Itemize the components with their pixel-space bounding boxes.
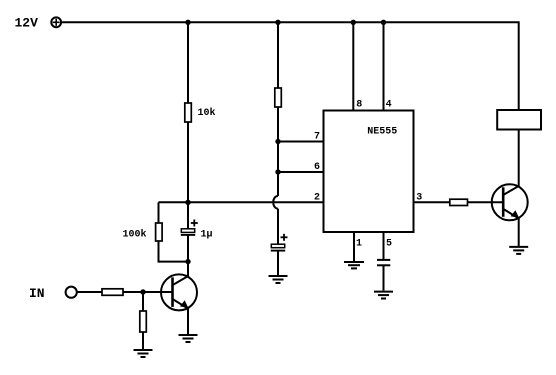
svg-text:2: 2 xyxy=(314,193,320,204)
node junction x=143 y=292.5 xyxy=(140,289,145,294)
ground under C3 xyxy=(374,292,393,299)
wire C2 bottom to ground xyxy=(277,251,279,276)
wire horizontal net y=202 to pin 2 xyxy=(159,201,324,203)
svg-text:5: 5 xyxy=(386,239,392,250)
wire down to R3 xyxy=(158,202,160,223)
wire Q2 emitter to ground xyxy=(518,218,520,247)
node junction top rail at x=187.5 xyxy=(185,20,190,25)
ground under C2 xyxy=(269,276,288,283)
wire hop over pin2 net xyxy=(273,196,278,209)
wire Q1 emitter to ground xyxy=(187,308,189,335)
resistor R4 xyxy=(102,289,123,296)
svg-text:12V: 12V xyxy=(15,16,39,31)
svg-text:4: 4 xyxy=(386,99,392,110)
resistor R5 xyxy=(140,311,147,332)
svg-text:1µ: 1µ xyxy=(201,229,213,240)
svg-text:6: 6 xyxy=(314,162,320,173)
wire R4 to Q1 base xyxy=(123,291,173,293)
svg-text:10k: 10k xyxy=(198,107,216,119)
wire R3 bottom to node xyxy=(159,241,189,262)
wire C3 to ground xyxy=(383,265,385,290)
wire top rail to R2 xyxy=(277,22,279,88)
wire R6 to Q2 base xyxy=(468,201,504,203)
resistor R1 10k xyxy=(185,103,192,122)
resistor R6 xyxy=(450,199,468,205)
transistor Q1 xyxy=(161,274,197,310)
wire pin 1 to ground xyxy=(353,232,355,261)
svg-text:IN: IN xyxy=(29,286,45,301)
terminal IN xyxy=(66,287,77,298)
ground under pin 1 xyxy=(344,262,364,268)
svg-text:8: 8 xyxy=(356,99,362,110)
resistor R2 xyxy=(275,88,282,107)
capacitor C2 electrolytic xyxy=(271,234,288,251)
op-amp/timer U1 NE555 box xyxy=(324,111,414,233)
wire pin 4 xyxy=(383,22,385,110)
relay coil K1 xyxy=(497,110,541,130)
node junction pin7 xyxy=(275,139,280,144)
svg-text:NE555: NE555 xyxy=(367,127,397,138)
wire top rail from 12V terminal to right turn down to relay xyxy=(61,22,518,110)
wire to pin 7 xyxy=(278,141,324,143)
ground under Q1 xyxy=(179,335,198,342)
power terminal 12V xyxy=(51,17,61,27)
svg-text:1: 1 xyxy=(356,239,362,250)
ground under R5 xyxy=(134,350,153,357)
node junction x=187.5 y=202 xyxy=(185,200,190,205)
capacitor C1 1u electrolytic xyxy=(181,220,198,235)
wire to pin 6 xyxy=(278,171,324,173)
svg-text:100k: 100k xyxy=(123,228,147,240)
wire node y202 down to C1 xyxy=(187,202,189,229)
wire R5 to ground xyxy=(142,332,144,350)
wire hop bottom to C2 xyxy=(277,209,279,245)
svg-text:7: 7 xyxy=(314,132,320,143)
wire pin 5 to C3 xyxy=(383,232,385,259)
wire C1 bottom to node xyxy=(187,235,189,262)
wire IN terminal to R4 xyxy=(77,291,102,293)
wire node down to R5 xyxy=(142,292,144,311)
wire R1 bottom to node xyxy=(187,122,189,202)
wire top rail to R1 xyxy=(187,22,189,103)
wire relay to Q2 collector xyxy=(518,130,520,187)
node junction top rail pin4 xyxy=(381,20,386,25)
node junction top rail pin8 xyxy=(351,20,356,25)
wire pin 3 to R6 xyxy=(414,201,450,203)
wire R2 bottom through pin7/pin6 nodes xyxy=(277,107,279,196)
ground under Q2 xyxy=(509,247,528,254)
capacitor C3 xyxy=(377,260,390,265)
node junction x=187.5 y=261.5 xyxy=(185,259,190,264)
transistor Q2 xyxy=(492,184,528,220)
node junction top rail at x=278 xyxy=(275,20,280,25)
node junction pin6 xyxy=(275,169,280,174)
wire pin 8 xyxy=(352,22,354,110)
resistor R3 100k xyxy=(156,223,163,241)
wire node to Q1 collector xyxy=(187,262,189,277)
